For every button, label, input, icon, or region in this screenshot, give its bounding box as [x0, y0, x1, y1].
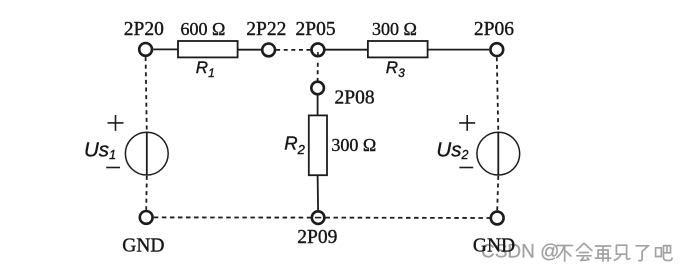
node 2P22: [262, 44, 275, 57]
node 2P06: [490, 43, 503, 56]
wire 2P05 to 2P08 (dashed): [317, 63, 319, 81]
node GND left: [140, 211, 153, 224]
bottom wire 2P09 to GND right (dashed): [326, 217, 490, 219]
wire 2P05 to R3: [325, 49, 368, 51]
bottom wire GND left to 2P09 (dashed): [154, 216, 311, 218]
wire 2P20 to R1: [153, 48, 178, 50]
svg-text:2P20: 2P20: [124, 19, 164, 40]
source Us1: [125, 132, 168, 175]
wire R2 to 2P09: [317, 175, 320, 210]
plus sign Us1: [108, 115, 124, 131]
char jian: [614, 245, 629, 260]
node 2P08: [311, 82, 324, 95]
wire R3 to 2P06: [428, 49, 490, 51]
svg-text:2P08: 2P08: [335, 87, 375, 108]
source Us2: [477, 132, 520, 175]
svg-text:2P22: 2P22: [246, 19, 286, 40]
resistor R3: [368, 41, 428, 57]
minus sign Us1: [106, 167, 120, 169]
svg-text:300 Ω: 300 Ω: [331, 135, 376, 155]
svg-text:GND: GND: [473, 235, 515, 256]
plus sign Us2: [459, 115, 475, 131]
wire Us1 to GND left (dashed): [145, 176, 148, 210]
wire 2P22 to 2P05 (dashed): [276, 49, 310, 51]
node 2P05: [312, 43, 325, 57]
char bu: [557, 246, 573, 262]
node 2P20: [139, 43, 152, 56]
resistor R2: [309, 115, 327, 175]
svg-text:300 Ω: 300 Ω: [372, 19, 417, 39]
wire 2P06 to Us2 (dashed): [497, 57, 499, 132]
svg-text:2P06: 2P06: [474, 19, 514, 40]
minus sign Us2: [459, 167, 473, 169]
wire 2P08 to R2: [317, 95, 319, 115]
svg-text:2P09: 2P09: [297, 227, 337, 248]
char hui: [577, 244, 592, 261]
wire 2P20 to Us1 (dashed): [146, 57, 147, 132]
wire Us2 to GND right (dashed): [497, 176, 498, 210]
char ba: [656, 246, 672, 261]
resistor R1: [178, 41, 238, 57]
node GND right: [491, 212, 504, 225]
wire R1 to 2P22: [238, 49, 262, 51]
node 2P09: [312, 211, 325, 224]
svg-text:2P05: 2P05: [296, 19, 336, 40]
watermark CSDN: [481, 242, 559, 263]
char le: [636, 246, 648, 261]
svg-text:GND: GND: [122, 235, 164, 256]
svg-text:600 Ω: 600 Ω: [181, 19, 226, 39]
char zai: [596, 246, 611, 261]
watermark chinese characters: [557, 244, 672, 262]
